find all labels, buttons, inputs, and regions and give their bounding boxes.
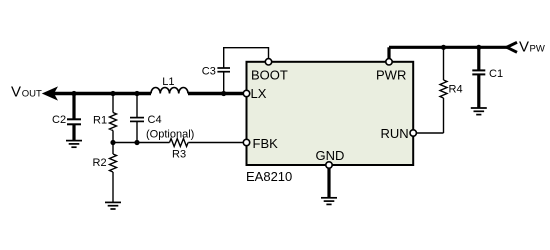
pin LX	[243, 86, 266, 101]
svg-text:PWR: PWR	[376, 67, 406, 82]
node VPW arrow	[507, 39, 545, 56]
pin BOOT	[251, 59, 288, 83]
pin RUN	[381, 126, 417, 141]
inductor L1	[151, 76, 188, 94]
svg-text:GND: GND	[316, 148, 345, 163]
svg-text:PW: PW	[530, 44, 545, 55]
resistor R4	[440, 47, 463, 133]
wire C3 to BOOT	[224, 48, 269, 68]
ground (under C2)	[66, 141, 82, 148]
pin PWR	[376, 59, 406, 83]
pin GND	[316, 148, 345, 168]
capacitor C1	[472, 47, 503, 107]
svg-text:V: V	[519, 39, 529, 56]
capacitor C3	[202, 66, 230, 94]
svg-text:BOOT: BOOT	[251, 67, 288, 82]
capacitor C4	[130, 94, 194, 143]
svg-text:R1: R1	[93, 115, 107, 127]
svg-text:L1: L1	[162, 76, 174, 88]
ground (under C1)	[471, 108, 487, 115]
wire VPW top net	[389, 47, 508, 58]
svg-text:LX: LX	[251, 86, 267, 101]
svg-text:C2: C2	[52, 114, 66, 126]
svg-text:OUT: OUT	[22, 89, 42, 100]
wire FBK net	[113, 142, 244, 144]
svg-text:RUN: RUN	[381, 126, 409, 141]
svg-text:FBK: FBK	[253, 136, 279, 151]
wire R4 to RUN	[417, 132, 444, 134]
svg-text:R2: R2	[93, 157, 107, 169]
resistor R1	[93, 94, 117, 143]
svg-text:C1: C1	[489, 68, 503, 80]
capacitor C2	[52, 94, 81, 141]
svg-text:C3: C3	[202, 66, 216, 78]
svg-text:V: V	[11, 84, 21, 101]
wire VOUT main net	[54, 92, 244, 95]
pin FBK	[243, 136, 278, 151]
node junction dots	[71, 45, 481, 145]
resistor R2	[93, 143, 117, 203]
svg-text:R4: R4	[449, 83, 463, 95]
ground (under GND pin)	[321, 198, 337, 205]
svg-text:C4: C4	[148, 114, 162, 126]
svg-text:R3: R3	[172, 149, 186, 161]
svg-text:EA8210: EA8210	[246, 169, 292, 184]
node VOUT arrow	[11, 84, 58, 101]
resistor R3	[170, 139, 189, 161]
ground (under R2)	[105, 202, 121, 209]
wire GND pin down	[327, 165, 330, 198]
svg-text:(Optional): (Optional)	[146, 128, 194, 140]
op-amp U1 EA8210 body	[246, 62, 413, 184]
